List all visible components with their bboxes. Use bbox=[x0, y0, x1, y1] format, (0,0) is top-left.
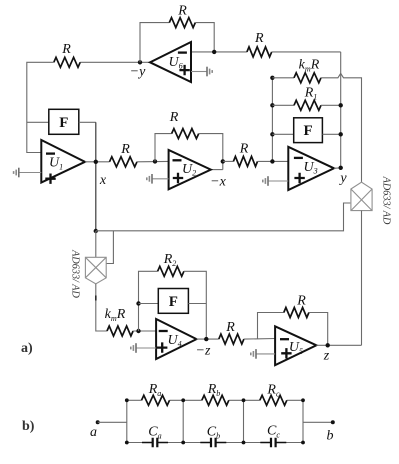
feedback element F3 box bbox=[294, 118, 323, 143]
svg-text:AD633/ AD: AD633/ AD bbox=[381, 176, 392, 225]
wire U2 feedback left vertical bbox=[155, 134, 172, 162]
wire F4 right lead bbox=[188, 303, 206, 305]
wire F4 left lead bbox=[139, 303, 159, 305]
ladder junction dot top 1 bbox=[125, 398, 129, 402]
op-amp U2 bbox=[169, 150, 211, 189]
wire U5 output z node bbox=[316, 344, 361, 346]
svg-text:R: R bbox=[254, 31, 264, 46]
multiplier AD633 right bbox=[351, 182, 372, 210]
capacitor Cb bbox=[200, 442, 226, 444]
wire left rail down to U1 - input bbox=[27, 62, 54, 152]
wire U4 output bbox=[197, 338, 219, 340]
wire U2 out to R bbox=[223, 160, 234, 162]
x line horizontal to right multiplier bbox=[96, 203, 351, 231]
ladder junction dot bottom 3 bbox=[242, 441, 246, 445]
ground U4 bbox=[135, 343, 137, 353]
ladder junction dot bottom 4 bbox=[301, 441, 305, 445]
wire U1 output x node bbox=[85, 161, 110, 163]
node F4 left dot bbox=[136, 301, 140, 305]
wire F3 left lead bbox=[272, 133, 293, 135]
U4 minus sign bbox=[159, 330, 168, 332]
node kmR left dot bbox=[270, 76, 274, 80]
wire R to U5 minus bbox=[244, 338, 275, 341]
node R1 right dot bbox=[339, 103, 343, 107]
resistor R x to U2 bbox=[110, 157, 138, 167]
wire U5 plus input bbox=[256, 353, 275, 355]
resistor R1 bbox=[294, 100, 321, 110]
wire R2 right to rail bbox=[184, 271, 206, 339]
svg-text:F: F bbox=[303, 123, 312, 139]
wire kmR right with hop over y rail bbox=[321, 73, 362, 182]
svg-text:Ca: Ca bbox=[148, 425, 161, 441]
svg-text:kmR: kmR bbox=[299, 58, 320, 74]
feedback element F4 box bbox=[158, 289, 188, 314]
U1 minus sign bbox=[46, 152, 55, 154]
ground U3 bbox=[267, 176, 269, 186]
bottom rail wire bbox=[127, 442, 153, 444]
terminal b dot bbox=[331, 420, 335, 424]
wire R to U3 minus bbox=[258, 160, 289, 162]
node R1 left dot bbox=[270, 103, 274, 107]
wire U2 plus input bbox=[152, 178, 169, 180]
wire terminal a bbox=[98, 421, 127, 423]
wire U5 feedback left bbox=[258, 313, 284, 339]
svg-text:a: a bbox=[90, 425, 97, 440]
wire U6 plus input bbox=[191, 71, 207, 73]
resistor R U4 to U5 bbox=[219, 334, 244, 344]
capacitor Cc bbox=[260, 442, 286, 444]
U6 plus sign bbox=[179, 65, 189, 75]
U2 plus sign bbox=[173, 173, 183, 183]
feedback element F1 box bbox=[49, 109, 79, 134]
svg-text:z: z bbox=[323, 349, 330, 364]
ladder rail 1 bbox=[126, 400, 128, 442]
svg-text:R: R bbox=[296, 294, 306, 309]
wire right multiplier output down to z bbox=[361, 211, 363, 346]
wire U6 feedback left vertical bbox=[140, 23, 169, 63]
resistor Rc bbox=[260, 395, 287, 405]
x rail vertical bbox=[95, 122, 97, 231]
U3 plus sign bbox=[294, 173, 304, 183]
wire kmR left lead bbox=[272, 77, 294, 79]
resistor kmR U4 bbox=[107, 326, 133, 336]
resistor kmR U3 bbox=[294, 73, 321, 83]
svg-text:kmR: kmR bbox=[105, 307, 126, 323]
node U4 input dot bbox=[136, 329, 140, 333]
wire U6 feedback right vertical bbox=[195, 23, 214, 52]
svg-text:R: R bbox=[61, 42, 71, 57]
svg-text:R: R bbox=[169, 110, 179, 125]
resistor R U2 to U3 bbox=[233, 156, 257, 166]
node -y junction dot bbox=[138, 60, 142, 64]
svg-text:Cb: Cb bbox=[207, 425, 220, 441]
wire from R top-right to y rail bbox=[272, 51, 341, 53]
svg-text:−x: −x bbox=[210, 175, 226, 190]
U2 minus sign bbox=[173, 159, 182, 161]
left rail U3 block bbox=[271, 78, 273, 162]
resistor R U2 feedback bbox=[172, 129, 199, 139]
resistor R top-right bbox=[247, 47, 272, 57]
svg-text:x: x bbox=[99, 173, 107, 188]
resistor R U6 feedback bbox=[169, 18, 195, 28]
svg-text:R: R bbox=[225, 320, 235, 335]
node y dot bbox=[339, 166, 343, 170]
wire x rail into left multiplier bbox=[95, 231, 97, 257]
svg-text:R: R bbox=[239, 142, 249, 157]
U6 minus sign bbox=[178, 51, 187, 53]
svg-text:R: R bbox=[120, 142, 130, 157]
svg-text:AD633/ AD: AD633/ AD bbox=[70, 249, 81, 298]
node F3 left dot bbox=[270, 132, 274, 136]
wire R to U2 minus bbox=[137, 160, 169, 162]
node U4 output dot bbox=[204, 337, 208, 341]
svg-text:Cc: Cc bbox=[267, 424, 280, 440]
resistor R2 bbox=[158, 266, 184, 276]
wire left multiplier output bbox=[96, 284, 107, 331]
svg-text:F: F bbox=[59, 115, 68, 131]
svg-text:F: F bbox=[169, 294, 178, 310]
ground U6 bbox=[206, 67, 208, 77]
multiplier AD633 left bbox=[85, 257, 106, 284]
node U2 output dot bbox=[221, 159, 225, 163]
ground U1 bbox=[18, 168, 20, 178]
wire F1 right lead to x rail bbox=[79, 121, 96, 123]
ladder junction dot top 2 bbox=[181, 398, 185, 402]
ground U5 bbox=[255, 349, 257, 359]
ladder junction dot top 4 bbox=[301, 398, 305, 402]
node x junction dot bbox=[94, 229, 98, 233]
ladder rail 2 bbox=[182, 400, 184, 442]
svg-text:b): b) bbox=[22, 419, 35, 434]
svg-text:−y: −y bbox=[130, 65, 146, 80]
svg-text:Ra: Ra bbox=[148, 382, 162, 398]
wire F3 right lead bbox=[322, 133, 340, 135]
wire terminal b bbox=[303, 421, 333, 423]
wire U3 output bbox=[334, 167, 341, 170]
resistor Rb bbox=[202, 395, 229, 405]
left rail U4 block bbox=[139, 271, 158, 331]
ladder rail 3 bbox=[243, 400, 245, 442]
op-amp U1 bbox=[41, 140, 85, 183]
op-amp U6 bbox=[150, 42, 191, 82]
wire U1 plus input bbox=[19, 172, 42, 174]
op-amp U4 bbox=[156, 319, 196, 359]
node x dot at U1 output bbox=[94, 160, 98, 164]
U1 plus sign bbox=[45, 174, 55, 184]
wire kmR to U4 minus bbox=[133, 330, 156, 332]
node F3 right dot bbox=[339, 132, 343, 136]
U5 minus sign bbox=[280, 338, 289, 340]
U3 minus sign bbox=[294, 157, 303, 159]
y rail vertical bbox=[340, 52, 342, 168]
ladder junction dot top 3 bbox=[242, 398, 246, 402]
svg-text:y: y bbox=[338, 171, 347, 186]
wire U5 feedback right bbox=[309, 313, 328, 346]
svg-text:R1: R1 bbox=[304, 86, 318, 102]
op-amp U5 bbox=[275, 326, 316, 365]
jog to left multiplier second input bbox=[105, 231, 113, 264]
wire U2 output bbox=[211, 169, 223, 171]
svg-text:R: R bbox=[177, 4, 187, 19]
wire U3 plus input bbox=[268, 180, 288, 182]
wire U6 minus input bbox=[191, 51, 247, 53]
wire -y node to left rail bbox=[80, 61, 150, 63]
wire R1 right lead bbox=[321, 104, 341, 106]
ladder junction dot bottom 1 bbox=[125, 441, 129, 445]
wire U2 feedback right vertical bbox=[199, 134, 223, 170]
node U2 input dot bbox=[153, 159, 157, 163]
U5 plus sign bbox=[281, 348, 291, 358]
U4 plus sign bbox=[157, 342, 167, 352]
resistor R top-left bbox=[54, 57, 80, 67]
capacitor Ca bbox=[142, 442, 168, 444]
node U3 minus dot bbox=[270, 159, 274, 163]
node z dot bbox=[326, 343, 330, 347]
ladder rail 4 bbox=[302, 400, 304, 442]
resistor R U5 feedback bbox=[284, 308, 309, 318]
node U6 minus input dot bbox=[212, 50, 216, 54]
svg-text:R2: R2 bbox=[163, 252, 177, 268]
svg-text:−z: −z bbox=[196, 344, 211, 359]
wire R1 left lead bbox=[272, 104, 294, 106]
ladder junction dot bottom 2 bbox=[181, 441, 185, 445]
wire F1 left lead bbox=[27, 121, 49, 123]
resistor Ra bbox=[142, 395, 170, 405]
svg-text:a): a) bbox=[21, 341, 33, 356]
wire U4 plus input bbox=[136, 347, 156, 349]
svg-text:Rc: Rc bbox=[266, 383, 280, 399]
top rail wire a-b bbox=[127, 399, 142, 401]
ground U2 bbox=[151, 174, 153, 184]
svg-text:b: b bbox=[327, 429, 334, 444]
svg-text:Rb: Rb bbox=[207, 382, 221, 398]
terminal a dot bbox=[96, 420, 100, 424]
op-amp U3 bbox=[288, 147, 334, 190]
